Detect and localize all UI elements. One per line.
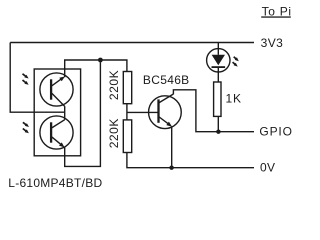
LED D1 anode triangle	[212, 55, 225, 66]
phototransistor Q3 circle	[40, 116, 73, 149]
phototransistor Q3 emitter arrowhead	[59, 142, 65, 147]
phototransistor Q2 emitter arrowhead	[59, 76, 65, 81]
LED D1 cathode bar	[212, 66, 226, 68]
transistor Q1 emitter arrowhead	[166, 122, 172, 127]
LED D1 light arrow a	[234, 57, 237, 60]
svg-text:L-610MP4BT/BD: L-610MP4BT/BD	[8, 176, 102, 190]
wire R1 to R2 with base tap	[126, 104, 128, 120]
wire 3V3 rail	[10, 42, 254, 44]
opto-isolator package box	[34, 69, 80, 156]
transistor Q1 collector diagonal	[159, 94, 173, 103]
light arrow into Q2 a	[23, 74, 27, 77]
transistor Q1 emitter diagonal	[159, 117, 168, 124]
phototransistor Q2 circle	[40, 73, 73, 106]
phototransistor Q2 base bar	[50, 79, 52, 99]
label To Pi underline	[261, 16, 291, 17]
wire Q1 emitter to 0V	[171, 126, 173, 167]
svg-text:GPIO: GPIO	[259, 125, 292, 139]
wire LED to R3	[217, 67, 219, 82]
phototransistor Q2 emitter-up diagonal	[52, 78, 63, 86]
svg-text:220K: 220K	[107, 70, 121, 100]
wire R2 to 0V rail	[127, 153, 254, 168]
wire R3 to GPIO	[217, 116, 219, 131]
resistor R3 1K	[214, 82, 221, 116]
light arrow into Q3 b	[23, 129, 27, 132]
svg-text:BC546B: BC546B	[143, 73, 190, 87]
wire base of Q1	[127, 111, 158, 113]
resistor R1 220K	[123, 72, 131, 104]
svg-text:1K: 1K	[226, 92, 242, 106]
phototransistor Q3 base bar	[50, 122, 52, 142]
wire 3V3 to LED	[217, 43, 219, 55]
wire 3V3 rail to opto collectors junction	[10, 43, 64, 113]
light arrow into Q3 a	[23, 122, 27, 125]
phototransistor Q3 collector diagonal	[52, 120, 65, 128]
node junction dot emitters net	[98, 58, 103, 63]
svg-text:220K: 220K	[107, 118, 121, 148]
svg-text:3V3: 3V3	[261, 36, 284, 50]
svg-text:0V: 0V	[260, 160, 275, 174]
wire Q1 collector to GPIO rail	[173, 90, 254, 132]
LED D1 light arrow b	[233, 62, 236, 65]
phototransistor Q3 emitter diagonal	[52, 137, 62, 145]
wire top emitter to resistors	[65, 60, 127, 77]
resistor R2 220K	[123, 120, 131, 153]
phototransistor Q2 collector diagonal	[52, 93, 65, 106]
node junction dot R3 on GPIO rail	[216, 130, 220, 134]
transistor Q1 BC546B circle	[149, 96, 182, 129]
wire opto mid junction	[64, 106, 66, 120]
LED D1 circle	[207, 49, 230, 72]
node junction dot Q1 emitter on 0V rail	[169, 166, 173, 170]
wire emitter-join vertical	[65, 60, 101, 166]
light arrow into Q2 b	[23, 80, 27, 83]
transistor Q1 base bar	[157, 99, 159, 122]
